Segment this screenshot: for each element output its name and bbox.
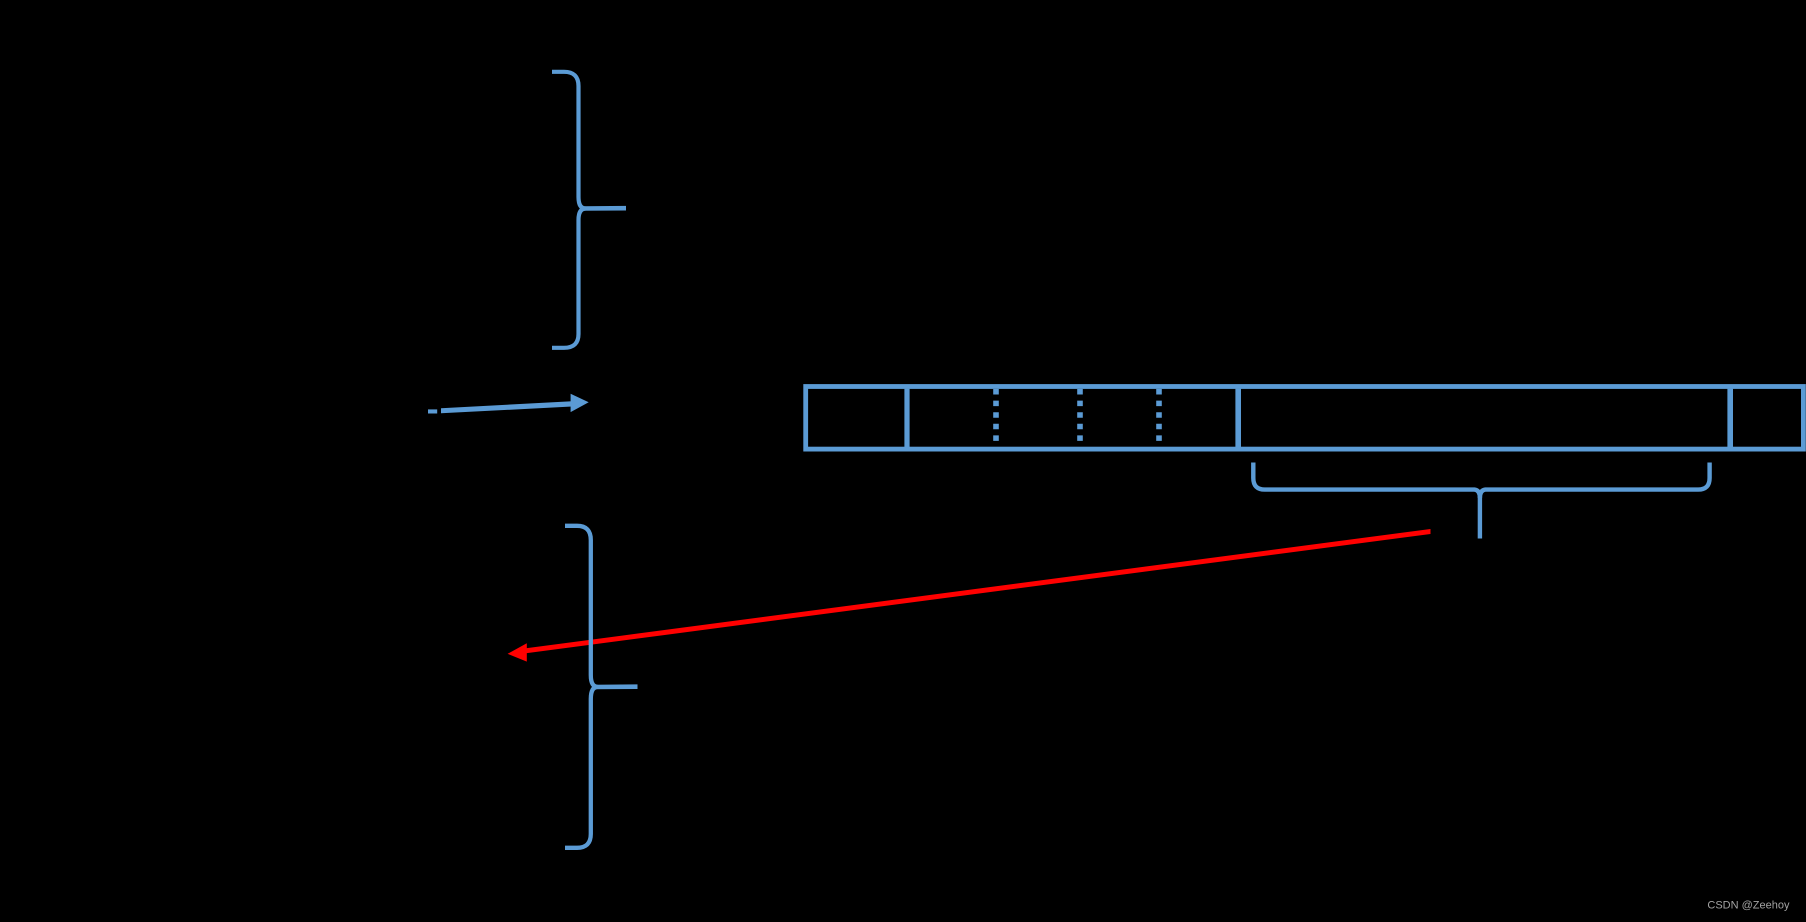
svg-text:CSDN @Zeehoy: CSDN @Zeehoy <box>1707 900 1790 912</box>
